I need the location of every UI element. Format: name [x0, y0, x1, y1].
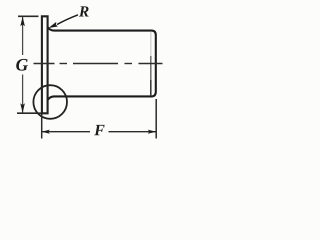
F left arrowhead [42, 130, 50, 134]
flange (head) outline [42, 16, 48, 113]
F dimension line right segment [109, 131, 156, 133]
label G [16, 59, 28, 71]
R leader line [57, 15, 78, 25]
end radius tangent line (dark lower part) [150, 80, 152, 96]
F dimension right extension line [155, 99, 157, 139]
F right arrowhead [148, 130, 156, 134]
end radius tangent line (middle part) [150, 56, 152, 80]
G top arrowhead [20, 17, 25, 27]
detail circle (corner radius callout) [33, 85, 67, 119]
G dimension line (broken for label) [22, 17, 24, 113]
F dimension line left segment [42, 131, 90, 133]
label R [79, 6, 89, 16]
body (shank) outline with fillets under head and rounded right end [48, 27, 156, 99]
G bottom arrowhead [20, 103, 25, 113]
G dimension bottom extension line [17, 112, 41, 114]
end radius tangent line (faint upper part) [150, 32, 152, 57]
G dimension top extension line [18, 15, 39, 17]
R leader arrowhead [48, 22, 57, 28]
label F [94, 125, 104, 135]
centerline (dash-dot axis) [34, 63, 163, 65]
F dimension left extension line [41, 114, 43, 139]
